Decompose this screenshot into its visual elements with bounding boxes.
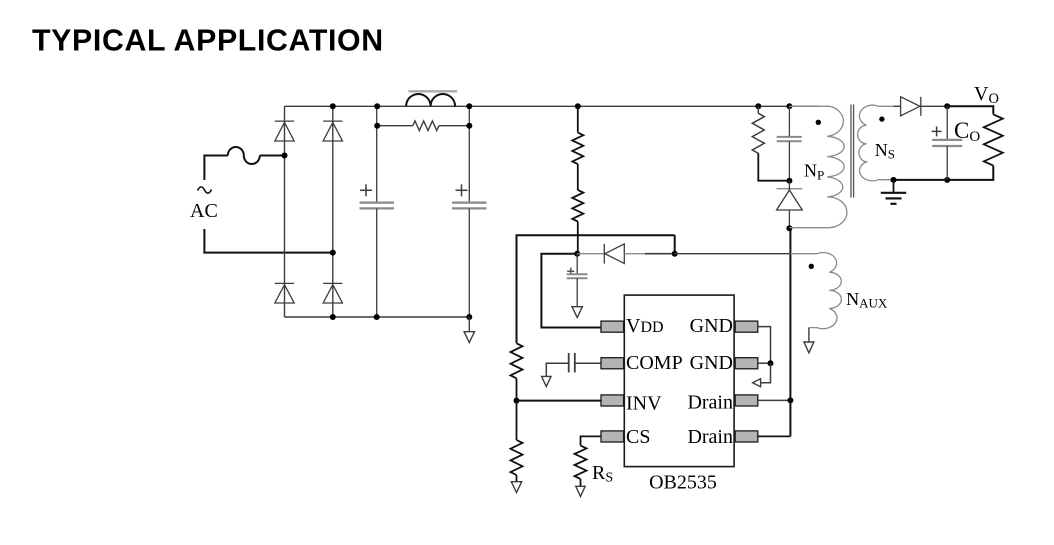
wire C4 to ground corner [546, 363, 568, 376]
diode D5 aux rectifier pointing left [603, 244, 605, 264]
node AC live junction [282, 153, 288, 159]
wire between startup resistors [577, 164, 579, 190]
diode D6 clamp [777, 188, 803, 190]
pin 1 VDD box [601, 321, 624, 332]
wire CS pin to Rs [581, 436, 602, 445]
wire clamp resistor bottom [758, 153, 789, 180]
svg-text:COMP: COMP [626, 352, 683, 374]
diode D2 bridge top-right [323, 120, 342, 122]
node B aux winding junction [672, 251, 678, 257]
wire GND junction to arrow [761, 363, 771, 383]
op-amp U1 OB2535 body [624, 295, 734, 467]
capacitor C6 output plates [932, 139, 962, 141]
capacitor C4 COMP plates [568, 353, 570, 372]
node choke right top [466, 103, 472, 109]
resistor R4 feedback upper [511, 343, 523, 378]
svg-text:VDD: VDD [626, 315, 664, 337]
aux phase dot [809, 264, 814, 269]
node INV divider [514, 398, 520, 404]
primary phase dot [816, 120, 821, 125]
ground VDD cap [572, 307, 582, 318]
node A VDD supply [574, 251, 580, 257]
resistor R7 clamp [757, 106, 759, 113]
svg-text:TYPICAL APPLICATION: TYPICAL APPLICATION [32, 25, 384, 58]
pin 7 GND box [735, 358, 758, 369]
capacitor C2 bulk polarity + [456, 189, 468, 191]
secondary phase dot [879, 116, 884, 121]
wire output return to secondary [894, 179, 948, 181]
svg-text:AC: AC [190, 200, 218, 222]
node drain to primary [786, 225, 792, 231]
node bottom rail bridge [330, 314, 336, 320]
capacitor C1 bulk polarity + [360, 189, 372, 191]
node GND pins junction [768, 360, 774, 366]
node bottom rail C2 [466, 314, 472, 320]
wire bridge left column [284, 106, 286, 317]
resistor R2 startup upper [577, 106, 579, 132]
capacitor C3 VDD bottom lead [576, 278, 578, 306]
pin 8 GND box [735, 321, 758, 332]
wire aux winding to ground [808, 328, 810, 342]
wire node A to diode D5 [577, 253, 604, 255]
node damping resistor right [466, 123, 472, 129]
ground arrow GND pins pointing left [753, 379, 761, 387]
wire aux sense loop top [517, 235, 675, 343]
inductor L1 core bar [409, 90, 458, 92]
capacitor C5 clamp top lead [788, 106, 790, 137]
svg-text:INV: INV [626, 392, 662, 414]
inductor L1 filter choke [406, 94, 455, 106]
node top rail at bridge [330, 103, 336, 109]
node output negative [944, 177, 950, 183]
wire AC left terminal bottom [204, 229, 332, 253]
transformer T1 auxiliary winding NAUX [675, 253, 791, 255]
node output positive [944, 103, 950, 109]
wire node A to VDD pin [541, 254, 601, 328]
wire COMP pin to cap C4 [575, 362, 601, 364]
wire HV top rail [285, 105, 821, 107]
node secondary ground [891, 177, 897, 183]
capacitor C1 bulk top lead [376, 106, 378, 202]
pin 3 INV box [601, 395, 624, 406]
wire clamp diode leads [788, 181, 790, 190]
wire AC left terminal top [204, 156, 227, 181]
AC tilde symbol [198, 187, 212, 193]
wire R4 to INV node [516, 378, 518, 400]
wire output top to load [947, 106, 993, 114]
svg-text:Drain: Drain [687, 426, 733, 448]
svg-text:GND: GND [690, 315, 733, 337]
svg-text:CS: CS [626, 426, 650, 448]
node AC neutral junction [330, 250, 336, 256]
capacitor C5 clamp bottom lead [788, 141, 790, 181]
wire GND pin second [758, 362, 771, 364]
pin 6 Drain box [735, 395, 758, 406]
node HV rail snubber resistor [755, 103, 761, 109]
capacitor C6 output bottom lead [946, 146, 948, 180]
earth ground secondary [893, 180, 895, 193]
svg-text:GND: GND [690, 352, 733, 374]
wire fuse to bridge [260, 155, 285, 157]
svg-text:CO: CO [954, 118, 980, 145]
ground primary DC return [468, 317, 470, 332]
node bottom rail C1 [374, 314, 380, 320]
svg-text:OB2535: OB2535 [649, 471, 717, 493]
diode D3 bridge bottom-left [275, 282, 294, 284]
wire GND pin top loop [758, 327, 771, 364]
wire drain bus vertical [789, 228, 791, 436]
wire node B riser [674, 235, 676, 254]
wire bridge right column [332, 106, 334, 317]
diode D1 bridge top-left [275, 120, 294, 122]
node damping resistor left [374, 123, 380, 129]
svg-text:VO: VO [974, 83, 999, 107]
wire output diode to node [921, 105, 947, 107]
capacitor C6 output top lead [946, 106, 948, 139]
capacitor C3 VDD top lead [576, 254, 578, 274]
ground COMP cap [542, 376, 551, 386]
ground aux winding [804, 342, 814, 353]
transformer T1 primary winding NP [789, 106, 847, 227]
capacitor C3 VDD plates [567, 273, 588, 275]
resistor R1 damping across choke [377, 125, 413, 127]
resistor R8 load [984, 114, 1003, 165]
wire load bottom [947, 166, 993, 180]
capacitor C1 plates [360, 202, 395, 204]
diode D7 output rectifier pointing right [901, 97, 920, 116]
node HV rail startup tap [575, 103, 581, 109]
pin 4 CS box [601, 431, 624, 442]
wire DC negative bottom rail [285, 316, 472, 318]
svg-text:NP: NP [804, 161, 824, 183]
capacitor C5 clamp plates [777, 136, 802, 138]
node choke left top [374, 103, 380, 109]
resistor R5 feedback lower [516, 401, 518, 440]
wire secondary to output diode [894, 105, 901, 107]
resistor R3 startup lower [572, 190, 583, 222]
diode D4 bridge bottom-right [323, 282, 342, 284]
fuse F1 [228, 147, 260, 164]
transformer core lines [850, 105, 852, 198]
svg-text:Drain: Drain [687, 392, 733, 414]
svg-text:NS: NS [875, 140, 895, 162]
wire Drain pin upper to bus [758, 399, 791, 401]
ground Rs [576, 486, 585, 496]
capacitor C3 VDD polarity + [567, 270, 574, 272]
pin 2 COMP box [601, 358, 624, 369]
wire Drain pin lower to bus [758, 435, 791, 437]
svg-text:NAUX: NAUX [846, 289, 888, 311]
pin 5 Drain box [735, 431, 758, 442]
resistor R6 Rs current sense [575, 446, 587, 479]
capacitor C2 plates [452, 202, 487, 204]
capacitor C1 bottom lead [376, 208, 378, 317]
transformer T1 secondary winding NS [858, 105, 901, 181]
capacitor C2 bottom lead [468, 208, 470, 317]
capacitor C6 output polarity + [932, 130, 942, 132]
wire diode D5 to node B [624, 253, 645, 255]
wire INV node to INV pin [517, 400, 602, 402]
capacitor C2 bulk top lead [468, 106, 470, 202]
node HV rail transformer [786, 103, 792, 109]
node drain bus [787, 397, 793, 403]
ground feedback divider [511, 482, 521, 493]
svg-text:RS: RS [592, 462, 613, 486]
node clamp junction [786, 178, 792, 184]
